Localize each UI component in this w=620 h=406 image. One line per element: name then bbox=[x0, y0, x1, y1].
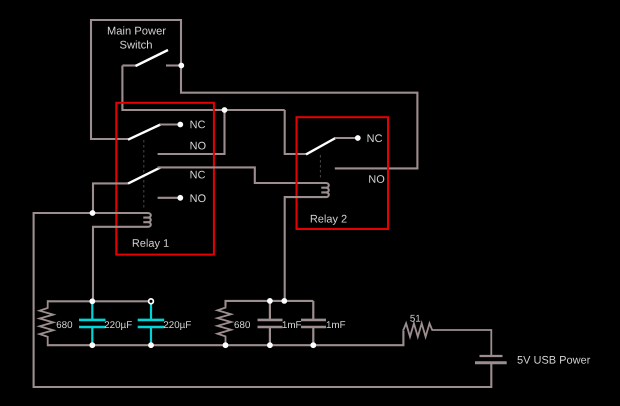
wire: relay1 sw2 NC to relay2 coil bbox=[158, 167, 326, 183]
wire: left rail from junction to bottom rail and battery negative bbox=[34, 213, 492, 387]
node: dot cap C4 bottom bbox=[310, 342, 316, 348]
node: dot R680b bottom bbox=[223, 342, 229, 348]
label: Switch (switch name line 2) bbox=[120, 40, 152, 48]
resistor R51 (51, horizontal) bbox=[402, 323, 491, 355]
resistor R680a (680) bbox=[40, 300, 54, 346]
wire: loop from relay1 sw1 common up over Main Power Switch label to switch right terminal bbox=[91, 20, 181, 139]
wire: RC group2 top rail bbox=[226, 301, 314, 306]
node: dot cap C3 top bbox=[267, 298, 273, 304]
node: relay R1 NC contact dot bbox=[177, 122, 183, 128]
switch S1 right stub bbox=[166, 64, 181, 66]
label: NO (relay2) bbox=[369, 175, 384, 183]
resistor R680b (680) bbox=[217, 300, 231, 346]
wire: mid bottom rail joining both RC groups to R51 bbox=[48, 331, 404, 345]
node: dot cap C2 bottom bbox=[148, 342, 154, 348]
label: Relay 2 bbox=[311, 215, 347, 225]
switch S1 blade (Main Power Switch) bbox=[136, 50, 169, 66]
capacitor C3 1mF bbox=[258, 301, 283, 346]
wire: relay1 sw2 common to junction bbox=[93, 183, 128, 211]
relay R2 NC stub bbox=[335, 137, 355, 139]
node: junction dot coil1/cap1 top bbox=[89, 298, 95, 304]
label: Main Power (switch name line 1) bbox=[108, 26, 166, 34]
wire: switch left terminal down, across to relay2 common riser bbox=[122, 66, 284, 111]
capacitor C2 220uF (electrolytic, cyan) bbox=[138, 304, 165, 346]
node: dot cap C3 bottom bbox=[267, 342, 273, 348]
label: 220uF (C2 value) bbox=[164, 321, 191, 330]
node: junction dot above relay1 (switch feed / relay1 NO tap) bbox=[222, 107, 228, 113]
wire: switch right terminal down and across to relay2 NO contact bbox=[181, 67, 417, 168]
label: 1mF (C4 value) bbox=[327, 321, 346, 328]
label: NO (relay1 switch B) bbox=[191, 194, 206, 202]
label: NC (relay1 switch A) bbox=[191, 121, 206, 129]
capacitor C4 1mF bbox=[301, 301, 326, 346]
node: relay R2 NC contact dot bbox=[355, 135, 361, 141]
relay R1 mechanical link (dashed) bbox=[143, 140, 145, 209]
capacitor C1 220uF (electrolytic, cyan) bbox=[79, 301, 106, 345]
label: 51 (R51 value) bbox=[410, 315, 420, 322]
relay R2 coil K2 bbox=[285, 183, 329, 300]
node: dot coil2 riser on rail bbox=[281, 298, 287, 304]
node: junction dot left of relay1 coil bbox=[90, 210, 96, 216]
label: Relay 1 bbox=[133, 239, 169, 249]
label: 5V USB Power bbox=[517, 356, 590, 364]
relay R2 switch blade bbox=[306, 138, 336, 154]
node: dot cap C1 bottom bbox=[89, 342, 95, 348]
relay R1 switch A blade bbox=[128, 125, 161, 140]
wire: relay1 sw1 NO branch down from junction bbox=[158, 110, 225, 154]
label: 220uF (C1 value) bbox=[105, 321, 132, 330]
label: 680 (R680b value) bbox=[235, 321, 251, 328]
battery BT1 bottom plate bbox=[475, 361, 507, 364]
wire: riser down to relay2 common bbox=[285, 110, 306, 154]
relay R1 coil K1 bbox=[93, 213, 151, 300]
label: 680 (R680a value) bbox=[57, 321, 72, 328]
label: NC (relay1 switch B) bbox=[191, 171, 206, 179]
label: 1mF (C3 value) bbox=[283, 321, 302, 328]
relay R2 box bbox=[297, 117, 389, 229]
wire: RC group1 top rail bbox=[48, 300, 150, 302]
label: NO (relay1 switch A) bbox=[191, 142, 206, 150]
switch S1 left stub bbox=[122, 64, 136, 66]
battery BT1 top plate bbox=[480, 355, 503, 357]
node: open terminal ring at cap2 top bbox=[149, 299, 154, 304]
node: relay R1 NO contact dot bbox=[177, 195, 183, 201]
relay R2 mechanical link (dashed) bbox=[319, 155, 321, 180]
relay R1 switch B blade bbox=[128, 167, 161, 183]
relay R1 switch B NO stub bbox=[158, 197, 178, 199]
relay R1 switch A NC stub bbox=[160, 123, 178, 125]
label: NC (relay2) bbox=[368, 134, 383, 142]
relay R1 box bbox=[116, 103, 214, 255]
node: switch S1 right terminal junction dot bbox=[178, 63, 184, 69]
